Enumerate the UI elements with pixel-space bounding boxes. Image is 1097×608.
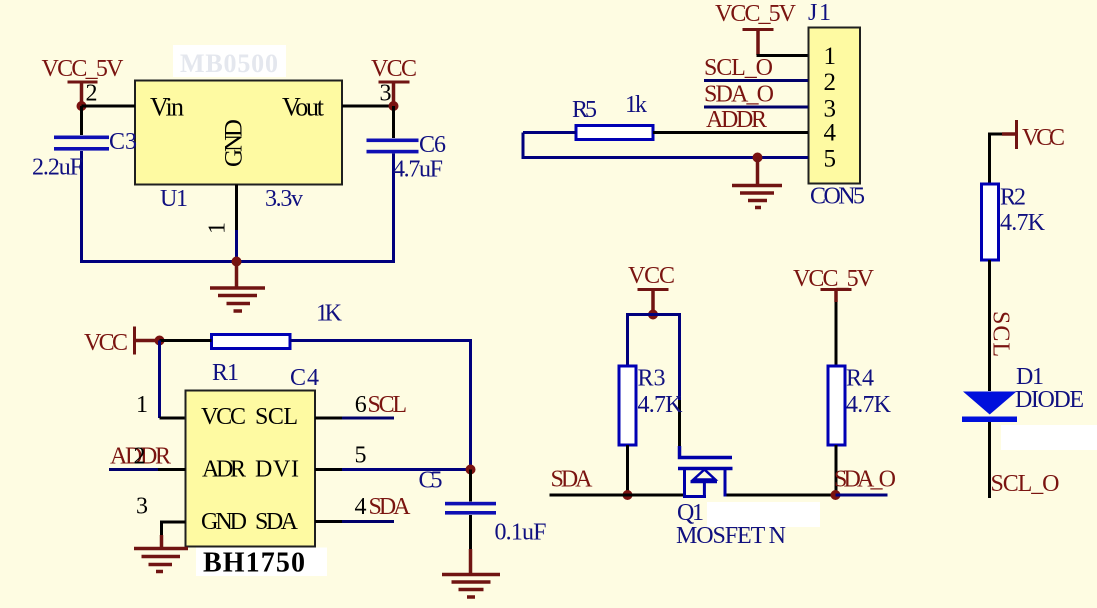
svg-text:1: 1 — [136, 392, 148, 418]
svg-text:SDA: SDA — [369, 494, 412, 520]
svg-text:2: 2 — [824, 69, 837, 96]
svg-text:SDA: SDA — [551, 467, 594, 493]
svg-text:VCC_5V: VCC_5V — [42, 56, 125, 82]
svg-text:DIODE: DIODE — [1015, 387, 1084, 413]
svg-text:4.7K: 4.7K — [1000, 210, 1046, 236]
svg-text:BH1750: BH1750 — [203, 548, 305, 579]
svg-text:SDA_O: SDA_O — [704, 82, 774, 108]
svg-text:GND: GND — [201, 509, 247, 535]
svg-text:1K: 1K — [316, 301, 343, 327]
svg-text:1k: 1k — [625, 92, 647, 118]
svg-text:R3: R3 — [638, 366, 666, 392]
svg-text:1: 1 — [824, 43, 837, 70]
svg-text:2: 2 — [86, 81, 98, 107]
svg-text:C3: C3 — [109, 129, 137, 155]
svg-text:3: 3 — [824, 96, 837, 123]
svg-text:2: 2 — [134, 444, 146, 470]
svg-text:C4: C4 — [290, 365, 319, 391]
svg-text:GND: GND — [221, 119, 248, 167]
svg-text:2.2uF: 2.2uF — [32, 155, 83, 181]
svg-text:SCL_O: SCL_O — [991, 471, 1060, 497]
svg-text:U1: U1 — [160, 186, 188, 212]
svg-text:VCC: VCC — [371, 56, 417, 82]
svg-text:R4: R4 — [846, 366, 874, 392]
svg-text:Vin: Vin — [150, 93, 184, 122]
svg-text:SCL_O: SCL_O — [704, 55, 773, 81]
svg-text:5: 5 — [355, 443, 367, 469]
svg-text:C6: C6 — [419, 132, 446, 158]
svg-text:ADR: ADR — [202, 457, 246, 483]
svg-text:6: 6 — [355, 392, 367, 418]
svg-text:CON5: CON5 — [810, 184, 865, 210]
svg-text:ADDR: ADDR — [706, 107, 767, 133]
svg-text:R1: R1 — [212, 360, 239, 386]
svg-text:SDA_O: SDA_O — [834, 467, 896, 493]
svg-text:J1: J1 — [808, 0, 831, 26]
svg-text:SCL: SCL — [255, 404, 298, 430]
svg-text:C5: C5 — [419, 468, 443, 494]
svg-text:4.7K: 4.7K — [638, 392, 684, 418]
svg-text:SDA: SDA — [255, 509, 299, 535]
svg-text:3: 3 — [136, 494, 148, 520]
svg-text:4: 4 — [355, 494, 367, 520]
svg-text:5: 5 — [824, 146, 837, 173]
svg-text:R5: R5 — [572, 97, 597, 123]
svg-text:Vout: Vout — [282, 93, 325, 122]
svg-text:3: 3 — [380, 81, 392, 107]
svg-text:4.7K: 4.7K — [846, 392, 892, 418]
svg-text:SCL: SCL — [988, 311, 1014, 357]
svg-text:1: 1 — [205, 222, 231, 234]
svg-text:0.1uF: 0.1uF — [495, 520, 547, 546]
svg-text:MB0500: MB0500 — [180, 49, 278, 78]
svg-text:VCC: VCC — [1022, 125, 1065, 151]
svg-text:VCC_5V: VCC_5V — [715, 1, 797, 27]
svg-text:4.7uF: 4.7uF — [393, 157, 443, 183]
svg-text:4: 4 — [824, 120, 837, 147]
svg-text:SCL: SCL — [368, 392, 408, 418]
svg-text:DVI: DVI — [255, 457, 299, 483]
svg-text:R2: R2 — [1000, 185, 1026, 211]
svg-text:VCC: VCC — [628, 263, 675, 289]
svg-text:VCC: VCC — [201, 404, 246, 430]
svg-text:VCC: VCC — [84, 330, 128, 356]
svg-text:3.3v: 3.3v — [265, 186, 303, 212]
svg-text:MOSFET N: MOSFET N — [676, 523, 786, 549]
